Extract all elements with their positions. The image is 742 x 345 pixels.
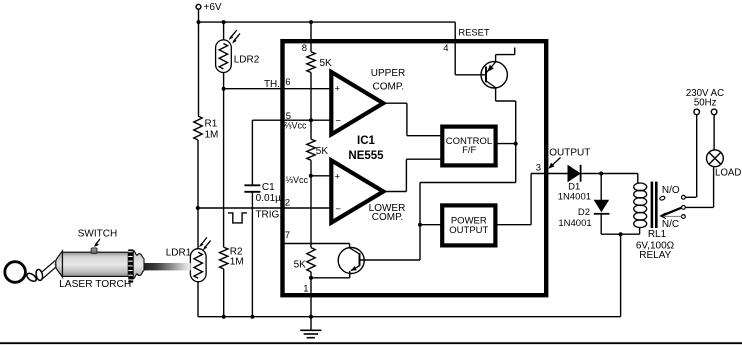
node junction top bus at R1 (197, 20, 201, 24)
wire lower comp to control FF (383, 159, 440, 191)
svg-text:7: 7 (285, 230, 290, 241)
wire TH node down to R2 (223, 89, 225, 248)
svg-text:1: 1 (303, 283, 308, 294)
label LOAD (715, 168, 741, 179)
wire Q1 collector to control node (496, 88, 516, 144)
wire pin5 to C1 (252, 120, 331, 184)
svg-text:2: 2 (285, 198, 290, 209)
resistor R2 (220, 247, 228, 269)
resistor 5K lower (307, 248, 315, 272)
light arrows into LDR2 (229, 30, 240, 43)
wire D2 branch top (600, 174, 602, 201)
relay contact N/O (682, 195, 697, 199)
node junction bus R2 (222, 315, 226, 319)
wire bus to 5K top (310, 22, 312, 52)
wire node to POWER OUTPUT (420, 224, 442, 226)
wire R2 to ground bus (223, 269, 225, 317)
wire pin1 to ground bus (310, 278, 312, 317)
svg-text:1M: 1M (205, 130, 219, 141)
wire C1 to ground bus (251, 192, 253, 317)
block CONTROL F/F (442, 127, 495, 166)
wire LDR1 to ground bus (197, 282, 199, 317)
svg-text:RELAY: RELAY (639, 250, 671, 261)
relay RL1 coil (634, 174, 647, 235)
terminal 230V left (694, 109, 700, 115)
node junction 1/3 Vcc (309, 174, 313, 178)
svg-text:OUTPUT: OUTPUT (549, 147, 590, 158)
svg-text:D2: D2 (578, 207, 590, 218)
pin 2 label (285, 198, 290, 209)
wire mains left to N/O (696, 115, 698, 198)
wire pin 7 (283, 244, 350, 248)
wire lamp to pole (713, 167, 715, 208)
label 5K upper (320, 58, 333, 69)
torch switch (91, 248, 97, 254)
svg-text:⅔Vcc: ⅔Vcc (284, 121, 307, 131)
svg-text:1N4001: 1N4001 (558, 191, 591, 202)
label TRIG. (255, 210, 282, 221)
node junction power input (418, 223, 422, 227)
node junction control output (514, 142, 518, 146)
svg-text:+: + (335, 84, 341, 95)
wire D1 to relay (580, 173, 638, 175)
svg-text:50Hz: 50Hz (694, 97, 717, 108)
pin 1 label (303, 283, 308, 294)
svg-text:COMP.: COMP. (372, 212, 404, 223)
svg-text:TRIG.: TRIG. (255, 210, 282, 221)
label LDR2 (234, 55, 260, 66)
relay pole contact (682, 206, 714, 210)
label UPPER COMP. (371, 68, 405, 92)
svg-text:N/C: N/C (662, 219, 679, 230)
node junction top bus at 5K divider (309, 20, 313, 24)
wire control node to power input (420, 144, 516, 260)
label SWITCH with arrow (78, 229, 117, 247)
wire 5K to pin5 node (310, 73, 312, 140)
label 230V AC 50Hz (686, 88, 724, 108)
label 6V 100ohm (636, 240, 675, 251)
block POWER OUTPUT (442, 205, 495, 245)
svg-text:+6V: +6V (204, 2, 222, 13)
node junction top bus at LDR2 (222, 20, 226, 24)
label LOWER COMP. (369, 203, 406, 223)
svg-text:−: − (335, 115, 341, 126)
pin 8 label (302, 43, 307, 54)
label RESET (458, 26, 490, 37)
relay armature (659, 196, 681, 219)
pin 5 label (286, 111, 291, 122)
wire TRIG node to LDR1 (197, 208, 199, 249)
label C1 0.01u (256, 182, 281, 204)
label D2 1N4001 (558, 218, 591, 229)
wire +6V stem (198, 9, 200, 22)
svg-text:RESET: RESET (458, 26, 490, 37)
wire bus to LDR2 (223, 22, 225, 40)
label D1 (568, 182, 580, 193)
label D2 (578, 207, 590, 218)
svg-text:−: − (335, 204, 341, 215)
torch tail cone (55, 251, 63, 277)
label RELAY (639, 250, 671, 261)
svg-text:1N4001: 1N4001 (558, 218, 591, 229)
node junction relay ground (619, 232, 623, 236)
node junction TRIG divider (196, 206, 200, 210)
wire mains right to lamp (713, 115, 715, 150)
terminal 230V right (711, 109, 717, 115)
capacitor C1 (244, 185, 260, 192)
node junction bus C1 (250, 315, 254, 319)
+6V supply terminal (196, 2, 222, 13)
node junction pin5 divider (309, 118, 313, 122)
lamp LOAD (707, 150, 724, 167)
IC IC1 NE555 outline (283, 41, 547, 295)
pin 4 label (443, 43, 448, 54)
svg-text:NE555: NE555 (348, 150, 384, 162)
label 2/3 Vcc (284, 121, 307, 131)
label TH. (264, 79, 280, 90)
resistor 5K upper (307, 52, 315, 73)
node junction bus pin1 (309, 315, 313, 319)
label RL1 (648, 229, 667, 240)
wire POWER OUTPUT to pin 3 (495, 174, 568, 225)
label 5K middle (316, 146, 329, 157)
svg-text:+: + (335, 171, 341, 182)
label LASER TORCH (59, 279, 131, 290)
label 5K lower (294, 260, 307, 271)
op-amp upper comparator (331, 72, 383, 134)
wire TRIG to pin 2 (198, 207, 331, 209)
wire R1 to TRIG node (197, 140, 199, 208)
svg-text:5K: 5K (316, 146, 329, 157)
ground (300, 330, 321, 337)
svg-text:LASER TORCH: LASER TORCH (59, 279, 131, 290)
wire Q1 emitter to rail (496, 48, 515, 63)
svg-text:R1: R1 (205, 119, 218, 130)
svg-text:TH.: TH. (264, 79, 280, 90)
wire relay node to ground bus (620, 234, 622, 317)
torch chain link 2 (35, 269, 43, 281)
wire LDR2 to TH node (223, 73, 225, 89)
torch key ring (5, 262, 26, 283)
svg-text:SWITCH: SWITCH (78, 229, 117, 240)
svg-text:0.01µ: 0.01µ (256, 193, 281, 204)
svg-text:LOAD: LOAD (715, 168, 741, 179)
wire pin1 stub to ground (310, 317, 312, 331)
svg-text:5K: 5K (320, 58, 333, 69)
svg-text:N/O: N/O (662, 185, 680, 196)
svg-text:LDR1: LDR1 (166, 248, 192, 259)
label N/O (662, 185, 680, 196)
label N/C (662, 219, 679, 230)
laser beam (144, 263, 191, 270)
svg-text:RL1: RL1 (648, 229, 667, 240)
svg-text:UPPER: UPPER (371, 68, 405, 79)
wire Q2 base (360, 259, 421, 261)
op-amp lower comparator (331, 160, 383, 222)
transistor Q1 (481, 62, 507, 88)
node junction pin1 emitter (309, 276, 313, 280)
trigger pulse symbol (228, 213, 247, 223)
wire 5K lower to node (310, 272, 312, 278)
light arrows into LDR1 (199, 237, 211, 250)
resistor R1 (194, 116, 202, 140)
relay contact N/C (664, 215, 686, 219)
relay core (652, 182, 656, 228)
svg-text:5K: 5K (294, 260, 307, 271)
svg-text:6: 6 (285, 77, 290, 88)
LDR1 (190, 249, 206, 282)
node junction D1 D2 (599, 172, 603, 176)
wire upper comp to control FF (383, 103, 440, 136)
wire ground bus (198, 316, 621, 318)
torch chain link 1 (25, 272, 37, 283)
wire Q2 emitter to pin1 node (311, 271, 350, 278)
label LDR1 (166, 248, 192, 259)
svg-text:1M: 1M (230, 257, 244, 268)
svg-text:⅓Vcc: ⅓Vcc (286, 175, 309, 185)
diode D1 (568, 165, 581, 182)
svg-text:3: 3 (536, 162, 541, 173)
label R2 1M (230, 247, 244, 268)
svg-text:C1: C1 (262, 182, 275, 193)
label 1/3 Vcc (286, 175, 309, 185)
svg-text:IC1: IC1 (357, 135, 376, 147)
LDR2 (216, 40, 232, 73)
wire control FF output (498, 143, 516, 145)
resistor 5K middle (307, 139, 315, 160)
svg-text:LDR2: LDR2 (234, 55, 260, 66)
figure bottom rule (0, 342, 742, 344)
label R1 1M (205, 119, 219, 141)
torch lanyard (42, 261, 56, 279)
transistor Q2 (338, 248, 364, 274)
svg-text:COMP.: COMP. (373, 81, 405, 92)
torch knurled ring (128, 249, 133, 282)
wire RESET pin 4 (455, 22, 485, 75)
label IC1 NE555 (348, 135, 384, 162)
label D1 1N4001 (558, 191, 591, 202)
pin 3 label (536, 162, 541, 173)
wire top supply bus (198, 21, 455, 23)
svg-text:OUTPUT: OUTPUT (449, 225, 488, 236)
svg-text:4: 4 (443, 43, 448, 54)
wire D2 bottom to relay bottom (601, 214, 639, 234)
wire 5K to 1/3 node (310, 160, 312, 247)
node junction TH divider (222, 87, 226, 91)
pin 7 label (285, 230, 290, 241)
label OUTPUT with arrow (548, 147, 590, 169)
torch body (63, 252, 129, 276)
svg-text:F/F: F/F (462, 145, 476, 156)
wire TH to pin 6 (224, 88, 331, 90)
torch nozzle (133, 250, 144, 278)
wire 1/3 node to lower comp + (311, 175, 331, 177)
pin 6 label (285, 77, 290, 88)
svg-text:8: 8 (302, 43, 307, 54)
diode D2 (594, 200, 610, 214)
wire +6V to R1 (198, 22, 200, 116)
